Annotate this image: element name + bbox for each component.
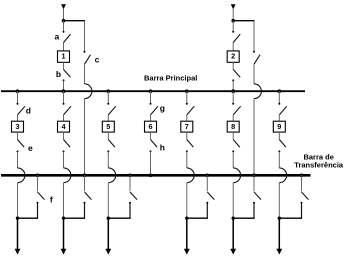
svg-text:f: f — [50, 195, 53, 205]
svg-text:h: h — [160, 142, 165, 152]
svg-text:9: 9 — [277, 122, 281, 131]
svg-text:Barra Principal: Barra Principal — [144, 74, 197, 83]
svg-text:1: 1 — [61, 52, 65, 61]
svg-text:2: 2 — [231, 52, 235, 61]
svg-text:g: g — [160, 103, 165, 113]
svg-text:a: a — [55, 32, 60, 42]
svg-text:5: 5 — [106, 122, 110, 131]
svg-text:c: c — [95, 55, 100, 65]
svg-text:d: d — [26, 106, 31, 116]
svg-text:6: 6 — [148, 122, 152, 131]
svg-text:3: 3 — [15, 122, 19, 131]
svg-text:e: e — [28, 143, 33, 153]
svg-text:b: b — [56, 69, 61, 79]
svg-text:Transferência: Transferência — [294, 161, 344, 170]
svg-text:8: 8 — [231, 122, 235, 131]
svg-text:7: 7 — [185, 122, 189, 131]
